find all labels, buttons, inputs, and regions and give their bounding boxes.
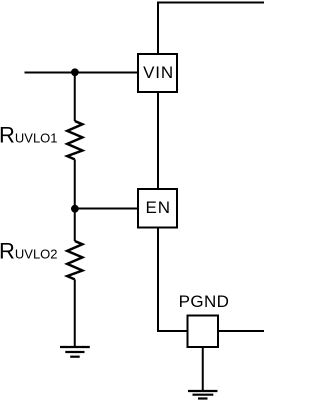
node B junction dot on EN wire: [71, 205, 79, 213]
pin EN: [138, 189, 177, 228]
ground under RUVLO2: [60, 347, 90, 357]
wire node B to EN: [75, 208, 138, 210]
wire EN down and right to PGND: [158, 228, 188, 332]
resistor RUVLO2: [67, 241, 82, 279]
svg-text:EN: EN: [145, 198, 170, 217]
wire RUVLO2 to ground: [74, 279, 76, 347]
pin PGND: [188, 316, 219, 348]
wire PGND down to ground: [202, 347, 204, 391]
svg-text:RUVLO2: RUVLO2: [0, 238, 58, 263]
svg-text:RUVLO1: RUVLO1: [0, 123, 58, 148]
wire top from VIN up and right to edge: [158, 3, 264, 55]
wire PGND right to edge: [218, 330, 264, 332]
resistor RUVLO1: [67, 121, 82, 159]
wire junction A down to resistor R_UVLO1: [74, 72, 76, 122]
wire left input to VIN: [25, 72, 139, 74]
ground under PGND: [188, 391, 218, 399]
pin VIN: [138, 54, 177, 92]
node A junction dot on VIN wire: [71, 68, 79, 76]
svg-text:VIN: VIN: [143, 63, 174, 82]
wire RUVLO1 to RUVLO2: [74, 159, 76, 241]
wire VIN to EN vertical: [157, 92, 159, 189]
svg-text:PGND: PGND: [179, 292, 230, 311]
